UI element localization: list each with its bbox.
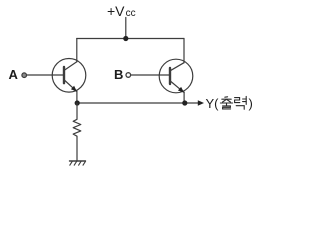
transistor Q1 collector stroke <box>64 62 77 70</box>
ground symbol <box>70 161 86 165</box>
node junction dot on rail <box>123 36 128 41</box>
terminal A <box>22 73 27 78</box>
wire Q2 collector drop <box>183 39 185 63</box>
node emitter junction dot left <box>75 100 80 105</box>
svg-text:+V: +V <box>107 3 125 19</box>
wire input B to Q2 base <box>131 74 170 76</box>
output label closing paren <box>249 96 253 111</box>
hangul 력 <box>235 96 247 109</box>
terminal B <box>126 73 131 78</box>
svg-text:): ) <box>249 96 253 111</box>
transistor Q2 emitter stroke <box>170 81 184 93</box>
wire Vcc vertical lead <box>125 18 127 39</box>
transistor Q2 emitter arrow <box>178 87 184 93</box>
wire input A to Q1 base <box>27 74 64 76</box>
svg-text:A: A <box>9 67 19 82</box>
transistor Q2 collector stroke <box>170 63 184 71</box>
node emitter junction dot right <box>182 100 187 105</box>
transistor Q1 emitter stroke <box>64 80 77 92</box>
wire top supply rail <box>77 38 184 40</box>
svg-text:Y(: Y( <box>206 96 220 111</box>
wire Q1 emitter down <box>76 91 78 103</box>
wire resistor to ground <box>76 137 78 161</box>
svg-text:cc: cc <box>126 8 136 19</box>
svg-text:B: B <box>114 67 123 82</box>
output arrowhead <box>198 100 204 106</box>
wire output horizontal <box>77 102 199 104</box>
transistor Q2 base bar <box>169 68 171 84</box>
transistor Q1 circle <box>52 59 86 93</box>
transistor Q1 base bar <box>63 67 65 83</box>
output label Y <box>206 96 220 111</box>
Vcc supply label +Vcc <box>107 3 136 19</box>
hangul 출 <box>220 97 232 109</box>
transistor Q2 circle <box>159 59 193 93</box>
wire Q2 emitter down <box>183 92 185 103</box>
wire Q1 collector drop <box>76 39 78 62</box>
resistor RE zigzag <box>73 103 81 137</box>
transistor Q1 emitter arrow <box>71 86 77 92</box>
